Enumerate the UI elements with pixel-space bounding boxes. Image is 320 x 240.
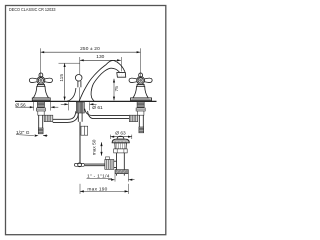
outer profile bbox=[79, 60, 125, 101]
dimension 250 ± 20 bbox=[40, 46, 140, 78]
spout tip (aerator) bbox=[117, 73, 126, 78]
svg-text:250 ± 20: 250 ± 20 bbox=[80, 46, 100, 52]
body bbox=[115, 143, 127, 149]
nut bbox=[36, 108, 45, 111]
dimension Ø 63 bbox=[110, 130, 131, 139]
top ear bbox=[39, 73, 43, 78]
body section bbox=[38, 111, 44, 115]
threaded shank bbox=[37, 102, 44, 108]
left valve below deck bbox=[36, 102, 52, 134]
left handle (cross handle) bbox=[29, 73, 52, 101]
dimension 115 (vertical) bbox=[59, 63, 80, 100]
dimension 1" - 1"1/4 bbox=[87, 174, 135, 182]
svg-text:max 50: max 50 bbox=[92, 139, 98, 155]
nut bbox=[114, 149, 128, 153]
flange bbox=[112, 139, 129, 143]
right ear bbox=[44, 78, 52, 82]
deck line bbox=[15, 100, 157, 102]
pop-up lift rod bbox=[80, 122, 88, 163]
right valve below deck bbox=[129, 102, 145, 133]
threaded tip bbox=[38, 128, 43, 134]
base flange bbox=[32, 98, 50, 101]
svg-text:max 190: max 190 bbox=[87, 187, 107, 193]
spout body bbox=[67, 60, 126, 101]
tailpipe bbox=[38, 115, 40, 128]
plug knob bbox=[117, 136, 124, 139]
pop-up lift knob (ball) bbox=[75, 75, 82, 101]
drawing frame bbox=[6, 6, 166, 235]
dimension Ø 56 bbox=[15, 102, 58, 111]
elbow to hose bbox=[44, 115, 53, 121]
svg-text:130: 130 bbox=[96, 54, 104, 60]
ball joint nut at drain bbox=[106, 157, 110, 160]
left ear bbox=[29, 78, 37, 82]
shank tailpiece bbox=[77, 113, 79, 122]
svg-text:DECO CLASSIC CR 12033: DECO CLASSIC CR 12033 bbox=[9, 7, 56, 12]
left hose bbox=[53, 111, 79, 122]
extension line ball axis bbox=[79, 57, 81, 74]
svg-text:115: 115 bbox=[59, 74, 65, 82]
extension line right handle axis bbox=[140, 48, 142, 78]
rod coupler bbox=[81, 126, 84, 135]
dimension 130 bbox=[80, 54, 122, 74]
svg-text:75: 75 bbox=[114, 86, 120, 92]
svg-text:1" - 1"1/4: 1" - 1"1/4 bbox=[87, 174, 110, 180]
pop-up waste (drain) bbox=[112, 136, 129, 175]
tail pipe bbox=[116, 153, 118, 176]
base flare left bbox=[67, 88, 76, 101]
spout shank below deck (hatched) bbox=[76, 102, 84, 122]
svg-text:Ø 63: Ø 63 bbox=[115, 130, 126, 136]
thread band bbox=[115, 170, 128, 174]
extension line spout outlet bbox=[120, 57, 122, 71]
dimension 1/2" G bbox=[16, 130, 48, 137]
dimension 75 (vertical) bbox=[113, 79, 120, 101]
max 50 dimension bbox=[92, 139, 103, 155]
rosette circles bbox=[37, 77, 45, 85]
right handle (cross handle) bbox=[129, 73, 152, 101]
bell base bbox=[33, 84, 48, 98]
inner profile bbox=[91, 68, 119, 101]
pivot and lever bbox=[74, 157, 116, 169]
dimension Ø 61 bbox=[61, 102, 103, 111]
extension line left handle axis bbox=[40, 48, 42, 78]
right hose bbox=[85, 109, 130, 119]
svg-text:Ø 61: Ø 61 bbox=[92, 105, 103, 111]
dimension max 190 bbox=[80, 184, 128, 194]
